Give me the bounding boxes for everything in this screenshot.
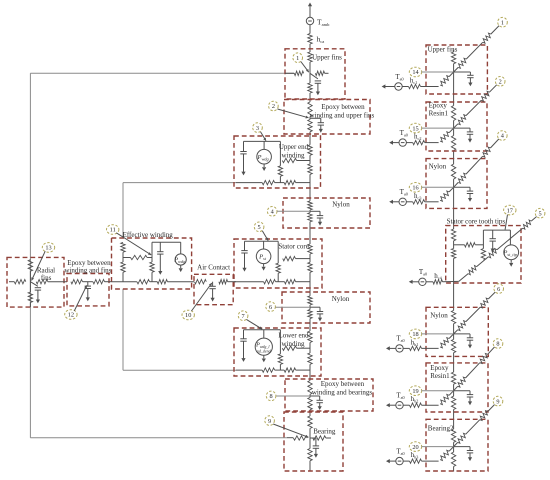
svg-text:Effective winding: Effective winding — [123, 231, 174, 239]
svg-text:Bearing2: Bearing2 — [428, 424, 454, 432]
svg-text:11: 11 — [110, 227, 116, 234]
svg-text:fins: fins — [41, 274, 52, 282]
svg-text:1: 1 — [296, 55, 299, 62]
svg-text:10: 10 — [185, 312, 191, 319]
svg-text:Epoxy between: Epoxy between — [321, 103, 365, 111]
svg-text:Resin1: Resin1 — [430, 372, 450, 380]
svg-text:winding and upper fins: winding and upper fins — [310, 111, 375, 119]
svg-text:19: 19 — [412, 388, 418, 395]
svg-text:8: 8 — [496, 341, 499, 348]
svg-text:12: 12 — [68, 312, 74, 319]
svg-text:14: 14 — [412, 69, 419, 76]
svg-text:Nylon: Nylon — [430, 312, 448, 320]
svg-text:6: 6 — [269, 304, 272, 311]
svg-text:1: 1 — [501, 19, 504, 26]
svg-text:Epoxy: Epoxy — [430, 364, 449, 372]
svg-text:3: 3 — [256, 125, 259, 132]
svg-text:winding: winding — [282, 340, 305, 348]
svg-text:2: 2 — [272, 103, 275, 110]
svg-text:Nylon: Nylon — [429, 163, 447, 171]
svg-text:Bearing: Bearing — [313, 428, 336, 436]
svg-text:Stator core: Stator core — [278, 243, 309, 251]
svg-text:Upper end: Upper end — [279, 143, 309, 151]
svg-text:6: 6 — [497, 286, 500, 293]
svg-text:17: 17 — [507, 207, 513, 214]
svg-text:winding and fins: winding and fins — [64, 267, 111, 275]
svg-text:Upper fins: Upper fins — [312, 53, 342, 61]
svg-text:20: 20 — [412, 444, 418, 451]
svg-text:Nylon: Nylon — [332, 200, 350, 208]
svg-text:16: 16 — [412, 185, 418, 192]
svg-text:7: 7 — [242, 313, 245, 320]
svg-text:Upper fins: Upper fins — [428, 46, 458, 54]
svg-text:nd_dend: nd_dend — [257, 349, 272, 354]
svg-text:8: 8 — [270, 393, 273, 400]
svg-text:Epoxy: Epoxy — [429, 102, 448, 110]
svg-text:13: 13 — [45, 245, 51, 252]
svg-text:9: 9 — [268, 418, 271, 425]
svg-text:winding and bearings: winding and bearings — [312, 388, 373, 396]
svg-text:18: 18 — [412, 331, 418, 338]
svg-text:15: 15 — [412, 125, 418, 132]
svg-text:Lower end: Lower end — [278, 331, 309, 339]
svg-text:Air Contact: Air Contact — [197, 263, 230, 271]
svg-text:5: 5 — [258, 224, 261, 231]
svg-text:Stator core tooth tips: Stator core tooth tips — [447, 217, 506, 225]
svg-text:Resin1: Resin1 — [429, 110, 449, 118]
svg-text:2: 2 — [499, 79, 502, 86]
svg-text:winding: winding — [282, 151, 305, 159]
svg-text:9: 9 — [496, 398, 499, 405]
svg-text:Nylon: Nylon — [332, 295, 350, 303]
svg-text:Epoxy between: Epoxy between — [321, 380, 365, 388]
svg-text:5: 5 — [539, 210, 542, 217]
